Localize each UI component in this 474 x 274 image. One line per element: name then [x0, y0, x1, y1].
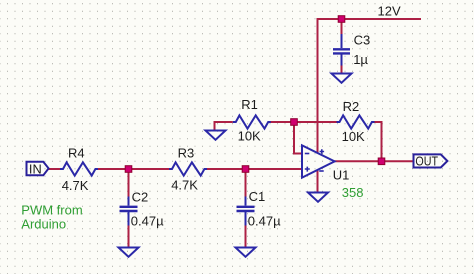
- svg-text:358: 358: [342, 185, 364, 200]
- ground below C3: [332, 74, 352, 83]
- op-amp U1 non-inverting input plus mark: [305, 167, 310, 172]
- wire C2 bottom stub to ground: [128, 225, 130, 249]
- capacitor C1: [237, 197, 255, 226]
- svg-text:C3: C3: [354, 32, 371, 47]
- wire R3 to op-amp non-inverting input: [207, 168, 302, 170]
- ground below C1: [236, 248, 256, 257]
- svg-text:1µ: 1µ: [353, 52, 368, 67]
- wire C3 top stub: [341, 19, 343, 35]
- wire IN port to R4: [49, 168, 61, 170]
- svg-text:OUT: OUT: [415, 154, 438, 169]
- capacitor C2: [120, 197, 138, 226]
- wire V- supply to ground: [317, 170, 319, 193]
- svg-text:R3: R3: [178, 146, 195, 161]
- wire R1 left lead to ground: [215, 122, 233, 130]
- op-amp U1 triangle: [302, 145, 335, 177]
- wire feedback to inverting input: [294, 122, 302, 154]
- ground below C2: [119, 248, 139, 257]
- resistor R1: [233, 115, 271, 128]
- svg-text:0.47µ: 0.47µ: [248, 213, 281, 228]
- capacitor C3: [333, 34, 350, 66]
- svg-text:R2: R2: [343, 99, 360, 114]
- node junction 12V/C3: [338, 16, 345, 23]
- ground below op-amp V- pin: [308, 193, 328, 202]
- wire C1 bottom stub to ground: [245, 225, 247, 249]
- op-amp U1 V- power pin minus mark: [319, 170, 324, 172]
- wire C1 top stub: [245, 169, 247, 198]
- svg-text:Arduino: Arduino: [21, 216, 66, 231]
- svg-text:4.7K: 4.7K: [62, 178, 89, 193]
- node junction R4/R3/C2: [125, 166, 132, 173]
- ground below R1 left lead: [206, 131, 226, 140]
- node junction output/R2/OUT: [378, 158, 385, 165]
- svg-text:IN: IN: [29, 162, 42, 177]
- op-amp U1 V+ power pin plus mark: [320, 149, 325, 154]
- svg-text:C1: C1: [249, 189, 266, 204]
- svg-text:PWM from: PWM from: [21, 202, 82, 217]
- node junction feedback R1/R2: [291, 119, 298, 126]
- svg-text:10K: 10K: [342, 129, 365, 144]
- svg-text:10K: 10K: [238, 129, 261, 144]
- wire R4 to R3: [98, 168, 170, 170]
- svg-text:C2: C2: [132, 190, 149, 205]
- op-amp U1 inverting input minus mark: [305, 153, 310, 155]
- wire R1-R2 node line: [269, 121, 337, 123]
- port OUT symbol: [414, 154, 448, 167]
- wire 12V rail: [318, 18, 422, 20]
- wire V+ supply drop to op-amp: [317, 18, 319, 153]
- wire C2 top stub: [128, 169, 130, 198]
- wire R2 right lead down to output node: [374, 122, 382, 161]
- port IN symbol: [27, 162, 49, 176]
- svg-text:12V: 12V: [378, 4, 401, 19]
- svg-text:4.7K: 4.7K: [171, 178, 198, 193]
- wire op-amp output to OUT port: [335, 160, 414, 162]
- svg-text:R1: R1: [241, 97, 258, 112]
- resistor R4: [60, 162, 98, 175]
- wire C3 bottom stub to ground: [341, 64, 343, 73]
- resistor R3: [169, 162, 207, 175]
- node junction R3/C1: [242, 166, 249, 173]
- svg-text:U1: U1: [333, 168, 350, 183]
- svg-text:0.47µ: 0.47µ: [131, 214, 164, 229]
- resistor R2: [337, 115, 375, 128]
- svg-text:R4: R4: [68, 146, 85, 161]
